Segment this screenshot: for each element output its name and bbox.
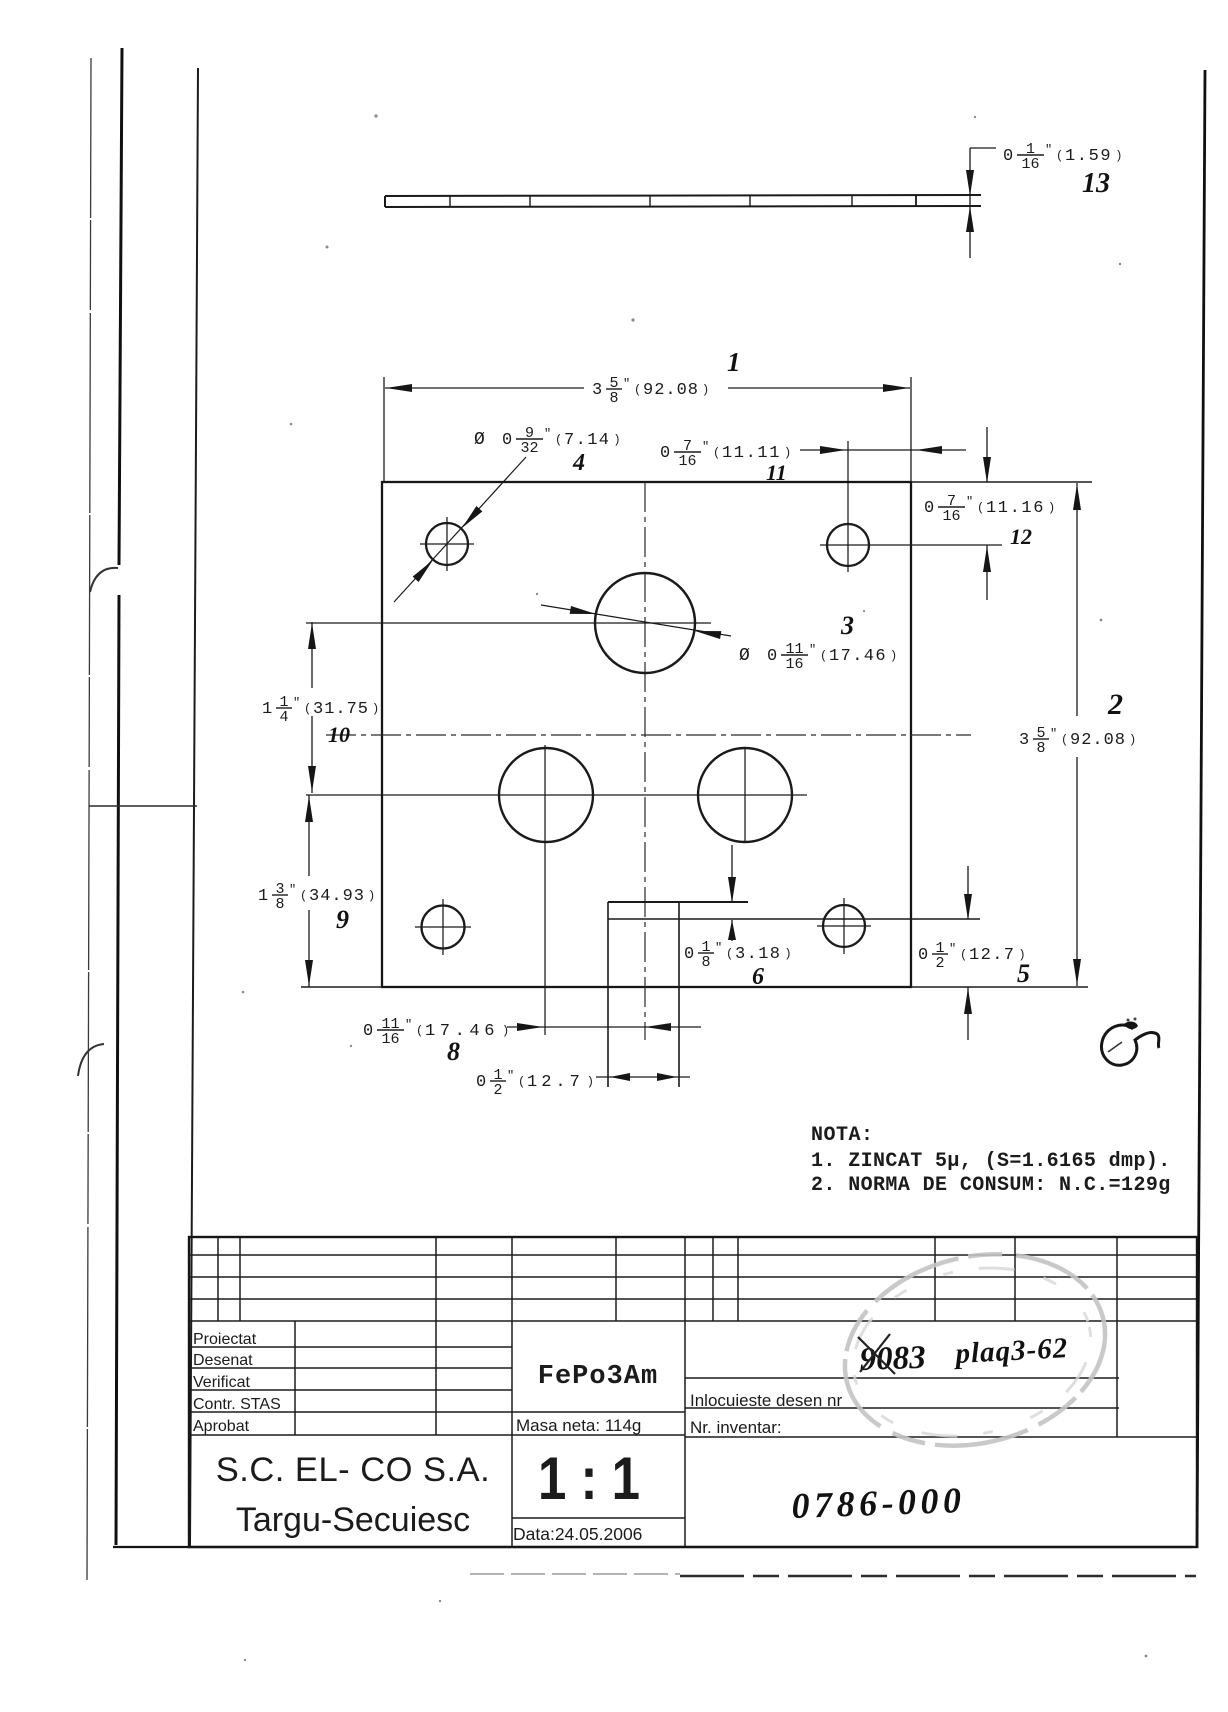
right height dim line lower segment	[1076, 757, 1078, 986]
svg-text:(: (	[518, 1075, 525, 1089]
side view plate right end tick	[915, 195, 917, 206]
title block outer border emphasis	[189, 1237, 1197, 1547]
svg-text:0: 0	[684, 945, 694, 964]
top-right hole horizontal line extended	[820, 544, 1002, 546]
dim 11.16 line upper segment	[986, 427, 988, 482]
scan speckles	[374, 114, 377, 117]
svg-text:(: (	[1061, 733, 1068, 747]
svg-text:(: (	[634, 383, 641, 397]
side view segment tick 3	[649, 195, 651, 206]
svg-text:Ø: Ø	[739, 646, 750, 666]
small hole dia leader line	[394, 457, 526, 602]
svg-text:Ø: Ø	[474, 430, 485, 450]
bottom-left hole cross vertical	[442, 899, 444, 955]
plate bottom edge extension right	[911, 986, 1088, 988]
slot step bottom long line	[608, 918, 980, 920]
dim 3.18 line upper segment	[731, 845, 733, 903]
hole medium left circle	[499, 748, 593, 842]
dim 12.7 bottom line	[596, 1076, 690, 1078]
svg-text:): )	[587, 1075, 594, 1089]
svg-text:16: 16	[1021, 156, 1039, 173]
left margin curl mark upper	[90, 568, 118, 592]
page right border line	[1197, 70, 1205, 1548]
svg-text:4: 4	[279, 709, 288, 726]
top-left hole cross vertical	[446, 517, 448, 571]
svg-text:″: ″	[289, 883, 296, 897]
svg-text:1.59: 1.59	[1065, 147, 1112, 166]
bottom-left hole cross horizontal	[415, 926, 471, 928]
svg-text:34.93: 34.93	[309, 887, 365, 906]
page margin thin left line	[87, 58, 91, 1580]
top width dim extension right	[910, 377, 912, 482]
dim 12.7 right line upper segment	[967, 866, 969, 919]
svg-text:(: (	[304, 702, 311, 716]
svg-text:8: 8	[701, 954, 710, 971]
svg-text:): )	[784, 446, 791, 460]
hole medium right circle	[698, 748, 792, 842]
svg-text:0: 0	[767, 647, 777, 666]
svg-text:): )	[368, 889, 375, 903]
svg-text:16: 16	[381, 1031, 399, 1048]
svg-text:1 : 1: 1 : 1	[538, 1445, 640, 1512]
handwritten doodle inner dash	[1108, 1042, 1122, 1052]
svg-text:(: (	[555, 433, 562, 447]
svg-text:6: 6	[752, 964, 764, 990]
dim 17.46 bottom line	[507, 1026, 701, 1028]
svg-text:2: 2	[935, 955, 944, 972]
svg-text:3: 3	[592, 381, 602, 400]
svg-text:″: ″	[1050, 727, 1057, 741]
top width dim arrow left	[386, 384, 412, 392]
svg-text:): )	[372, 702, 379, 716]
svg-text:Masa neta: 114g: Masa neta: 114g	[516, 1416, 641, 1435]
svg-text:(: (	[416, 1024, 423, 1038]
svg-text:92.08: 92.08	[1070, 731, 1126, 750]
dim 31.75 line lower segment	[311, 716, 313, 793]
svg-text:S.C. EL- CO S.A.: S.C. EL- CO S.A.	[216, 1451, 490, 1489]
handwritten doodle dots	[1127, 1019, 1130, 1022]
svg-text:″: ″	[966, 495, 973, 509]
big hole dia arrow right	[694, 627, 721, 639]
svg-text:32: 32	[520, 440, 538, 457]
svg-text:3.18: 3.18	[735, 945, 781, 964]
dim 34.93 arrow down	[305, 960, 313, 986]
svg-text:″: ″	[949, 942, 956, 956]
svg-text:″: ″	[293, 696, 300, 710]
svg-text:(: (	[820, 649, 827, 663]
svg-text:″: ″	[702, 440, 709, 454]
page bottom frame line	[113, 1546, 1192, 1548]
svg-text:Contr. STAS: Contr. STAS	[193, 1396, 281, 1413]
page border thick left line upper	[119, 48, 122, 565]
svg-text:0: 0	[502, 431, 512, 450]
svg-text:): )	[1048, 501, 1055, 515]
thickness dim leader vertical line	[969, 148, 971, 258]
dim 3.18 arrow down	[728, 877, 736, 903]
bottom dashed line dark segment	[680, 1575, 1196, 1578]
svg-text:8: 8	[609, 390, 618, 407]
svg-text:): )	[502, 1024, 509, 1038]
right height dim arrow down	[1073, 959, 1081, 985]
dim 12.7 right arrow up	[964, 988, 972, 1014]
dim 12.7 right line lower segment	[967, 987, 969, 1040]
side view segment tick 2	[529, 196, 531, 207]
dim 31.75 arrow down	[308, 766, 316, 792]
svg-text:10: 10	[328, 722, 350, 747]
top width dim line left segment	[385, 387, 584, 389]
svg-text:11.16: 11.16	[986, 499, 1045, 518]
svg-text:Aprobat: Aprobat	[193, 1418, 250, 1435]
slot step top line	[608, 901, 748, 903]
plate outline rectangle	[382, 482, 911, 987]
svg-text:0786-000: 0786-000	[791, 1480, 966, 1526]
svg-text:(: (	[1056, 149, 1063, 163]
svg-text:12: 12	[1010, 524, 1032, 549]
dim 31.75 line upper segment	[311, 622, 313, 688]
side view plate bottom line	[385, 206, 981, 207]
svg-text:1. ZINCAT 5µ, (S=1.6165 dmp).: 1. ZINCAT 5µ, (S=1.6165 dmp).	[811, 1150, 1171, 1173]
svg-text:13: 13	[1082, 168, 1110, 199]
svg-text:Inlocuieste desen nr: Inlocuieste desen nr	[690, 1391, 842, 1410]
svg-text:12.7: 12.7	[527, 1073, 584, 1092]
dim 34.93 arrow up	[305, 796, 313, 822]
svg-text:): )	[1115, 149, 1122, 163]
plate bottom edge extension left	[301, 986, 382, 988]
dim 34.93 line upper segment	[308, 795, 310, 876]
svg-text:11: 11	[766, 460, 787, 485]
left margin horizontal tick	[89, 805, 197, 807]
top width dim arrow right	[883, 384, 909, 392]
svg-text:): )	[890, 649, 897, 663]
hole small bottom-left circle	[422, 906, 465, 949]
svg-text:0: 0	[1003, 147, 1013, 166]
svg-text:″: ″	[405, 1018, 412, 1032]
dim 11.11 line	[800, 449, 966, 451]
svg-text:(: (	[977, 501, 984, 515]
small hole dia arrow upper	[459, 506, 482, 531]
slot right wall	[678, 902, 680, 1087]
side view plate top line	[385, 195, 981, 196]
svg-text:): )	[702, 383, 709, 397]
svg-text:″: ″	[809, 643, 816, 657]
vertical centerline dash-dot	[644, 482, 646, 1040]
svg-text:Proiectat: Proiectat	[193, 1331, 257, 1348]
side view segment tick 4	[749, 195, 751, 206]
svg-text:Nr. inventar:: Nr. inventar:	[690, 1418, 782, 1437]
bottom dashed line light segment	[470, 1573, 680, 1575]
page inner left border line	[190, 68, 198, 1546]
handwritten doodle loop	[1102, 1025, 1159, 1065]
top width dim extension left	[383, 377, 385, 482]
strike X over 9083 line 1	[858, 1337, 895, 1374]
svg-text:0: 0	[918, 946, 928, 965]
hole big center circle	[595, 573, 695, 673]
svg-text:″: ″	[544, 427, 551, 441]
svg-text:Targu-Secuiesc: Targu-Secuiesc	[236, 1501, 470, 1539]
medium right hole vertical line	[744, 748, 746, 843]
svg-text:5: 5	[1017, 959, 1030, 988]
top-left hole cross horizontal	[420, 543, 474, 545]
svg-text:FePo3Am: FePo3Am	[538, 1362, 658, 1392]
svg-text:8: 8	[275, 896, 284, 913]
svg-text:12.7: 12.7	[969, 946, 1015, 965]
dim 3.18 line lower segment	[731, 920, 733, 941]
svg-text:8: 8	[447, 1037, 460, 1066]
svg-text:NOTA:: NOTA:	[811, 1124, 874, 1147]
svg-text:1: 1	[262, 700, 272, 719]
hole small top-left circle	[426, 523, 468, 565]
svg-text:92.08: 92.08	[643, 381, 699, 400]
side view segment tick 5	[851, 195, 853, 206]
dim 12.7 bottom arrow right	[657, 1073, 677, 1081]
bottom-right hole cross horizontal	[817, 925, 871, 927]
svg-text:31.75: 31.75	[313, 700, 369, 719]
svg-text:Verificat: Verificat	[193, 1374, 250, 1391]
dim 34.93 line lower segment	[308, 910, 310, 987]
svg-text:(: (	[960, 948, 967, 962]
svg-text:7.14: 7.14	[564, 431, 610, 450]
svg-text:″: ″	[507, 1069, 514, 1083]
right height dim line upper segment	[1076, 483, 1078, 716]
svg-text:1: 1	[258, 887, 268, 906]
svg-text:″: ″	[623, 377, 630, 391]
top width dim line right segment	[728, 387, 910, 389]
svg-text:plaq3-62: plaq3-62	[952, 1332, 1069, 1370]
horizontal centerline dash-dot	[326, 734, 971, 736]
side view plate left end	[384, 196, 386, 207]
dim 11.16 line lower segment	[986, 545, 988, 600]
svg-text:(: (	[713, 446, 720, 460]
plate top edge extension right	[911, 481, 1092, 483]
svg-text:2: 2	[493, 1082, 502, 1099]
top-right hole vertical line extended	[847, 441, 849, 572]
medium holes horizontal center line	[306, 794, 807, 796]
page border thick left line lower	[116, 595, 119, 1545]
hole small bottom-right circle	[823, 905, 865, 947]
svg-text:″: ″	[1045, 143, 1052, 157]
left margin curl mark lower	[78, 1044, 104, 1076]
svg-text:9: 9	[336, 905, 349, 934]
svg-text:Data:24.05.2006: Data:24.05.2006	[513, 1524, 642, 1544]
svg-text:Desenat: Desenat	[193, 1352, 253, 1369]
hole small top-right circle	[827, 524, 869, 566]
dim 3.18 arrow up	[728, 920, 736, 940]
svg-text:2: 2	[1107, 688, 1123, 721]
big hole horizontal center line	[306, 622, 711, 624]
strike X over 9083 line 2	[860, 1334, 890, 1372]
dim 12.7 right arrow down	[964, 894, 972, 920]
dim 17.46 bottom arrow right	[517, 1023, 543, 1031]
thickness dim arrow down	[966, 170, 974, 196]
svg-text:17.46: 17.46	[425, 1022, 499, 1041]
dim 11.16 arrow down	[983, 457, 991, 483]
svg-text:(: (	[726, 947, 733, 961]
svg-text:1: 1	[727, 347, 741, 377]
svg-text:0: 0	[363, 1022, 373, 1041]
side view segment tick 1	[449, 196, 451, 207]
dim 11.11 arrow left	[916, 446, 942, 454]
svg-text:0: 0	[476, 1073, 486, 1092]
svg-text:2. NORMA DE CONSUM: N.C.=129g: 2. NORMA DE CONSUM: N.C.=129g	[811, 1174, 1171, 1197]
svg-text:17.46: 17.46	[829, 647, 887, 666]
svg-text:16: 16	[942, 508, 960, 525]
svg-text:3: 3	[1019, 731, 1029, 750]
svg-text:0: 0	[660, 444, 670, 463]
dim 17.46 bottom arrow left	[645, 1023, 671, 1031]
thickness dim arrow up	[966, 206, 974, 232]
svg-text:): )	[1129, 733, 1136, 747]
thickness dim top tick	[970, 147, 996, 149]
small hole dia arrow lower	[413, 557, 436, 582]
svg-text:0: 0	[924, 499, 934, 518]
big hole dia leader line	[541, 605, 731, 636]
svg-text:16: 16	[678, 453, 696, 470]
svg-text:): )	[784, 947, 791, 961]
big hole dia arrow left	[570, 606, 597, 618]
bottom-right hole cross vertical	[843, 898, 845, 954]
dim 11.16 arrow up	[983, 546, 991, 572]
dim 11.11 arrow right	[820, 446, 846, 454]
svg-text:4: 4	[572, 450, 585, 476]
svg-text:(: (	[300, 889, 307, 903]
svg-text:″: ″	[715, 941, 722, 955]
dim 31.75 arrow up	[308, 623, 316, 649]
slot left wall	[607, 902, 609, 1087]
dim 12.7 bottom arrow left	[610, 1073, 630, 1081]
svg-text:8: 8	[1036, 740, 1045, 757]
svg-text:): )	[613, 433, 620, 447]
stamp ellipse faint	[824, 1228, 1125, 1472]
title block grid	[189, 1236, 1197, 1238]
svg-text:16: 16	[785, 656, 803, 673]
right height dim arrow up	[1073, 484, 1081, 510]
svg-text:3: 3	[840, 611, 854, 640]
medium left hole vertical line extended	[544, 745, 546, 1035]
